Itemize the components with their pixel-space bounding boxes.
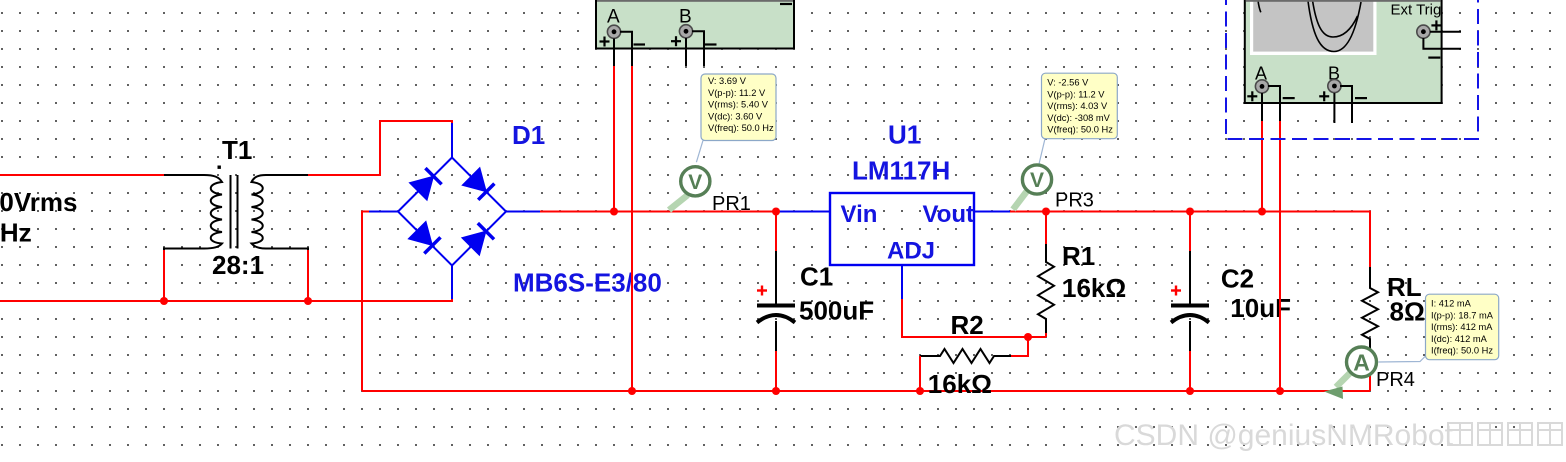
- resistor R2: [920, 349, 1011, 363]
- svg-text:10uF: 10uF: [1230, 293, 1291, 323]
- wire T1 secondary top to bridge: [308, 121, 452, 175]
- svg-text:PR3: PR3: [1055, 190, 1094, 212]
- svg-text:V: -2.56 V: V: -2.56 V: [1047, 78, 1089, 88]
- bridge rectifier D1: [398, 158, 506, 266]
- node junction A- rail: [628, 387, 636, 395]
- wire XSC1 A+: [613, 39, 615, 67]
- svg-text:Vin: Vin: [841, 201, 878, 228]
- capacitor C1: [775, 212, 777, 253]
- node junction R2 rail: [916, 387, 924, 395]
- wire blue from Vout: [974, 211, 1011, 213]
- svg-text:CSDN @geniusNMRobot: CSDN @geniusNMRobot: [1114, 419, 1454, 452]
- svg-text:V(freq): 50.0 Hz: V(freq): 50.0 Hz: [1047, 125, 1113, 135]
- oscilloscope XSC1 (top middle, partial): [596, 0, 794, 49]
- wire blue into bridge top: [451, 123, 453, 158]
- svg-text:R2: R2: [951, 310, 984, 340]
- svg-text:V: 3.69 V: V: 3.69 V: [708, 76, 747, 86]
- node junction XSC2 A+ main: [1258, 208, 1266, 216]
- diode D1a top-left: [409, 168, 441, 200]
- wire XSC2 B-: [1340, 86, 1352, 123]
- svg-text:I(rms): 412 mA: I(rms): 412 mA: [1431, 322, 1493, 332]
- svg-text:50Hz: 50Hz: [0, 218, 32, 248]
- wire main output line: [540, 211, 780, 213]
- probe PR3: [1039, 139, 1045, 164]
- wire Ext Trig -: [1423, 38, 1461, 49]
- svg-text:PR4: PR4: [1376, 369, 1415, 391]
- probe PR4 value box: [1426, 294, 1499, 360]
- svg-text:16kΩ: 16kΩ: [928, 369, 992, 399]
- node junction R1 main: [1042, 208, 1050, 216]
- node junction C1 top: [772, 208, 780, 216]
- svg-text:I(freq): 50.0 Hz: I(freq): 50.0 Hz: [1431, 346, 1493, 356]
- svg-text:V: V: [688, 171, 702, 194]
- svg-text:16kΩ: 16kΩ: [1062, 273, 1126, 303]
- wire T1 primary bottom to rail: [163, 250, 165, 301]
- capacitor C2: [1189, 212, 1191, 253]
- svg-text:LM117H: LM117H: [852, 156, 950, 186]
- watermark: [1114, 419, 1562, 452]
- svg-text:C2: C2: [1221, 263, 1254, 293]
- svg-text:I(dc): 412 mA: I(dc): 412 mA: [1431, 334, 1488, 344]
- svg-text:V(rms): 5.40 V: V(rms): 5.40 V: [708, 100, 769, 110]
- node junction C1 bottom: [772, 387, 780, 395]
- node junction T1 secondary bottom: [304, 297, 312, 305]
- diode D1d bottom-right: [462, 223, 494, 255]
- wire bridge left vertex down to ground rail: [368, 211, 398, 213]
- svg-text:28:1: 28:1: [212, 250, 264, 280]
- svg-text:A: A: [607, 7, 620, 28]
- diode D1c bottom-left: [408, 221, 440, 253]
- node junction T1 primary bottom: [160, 297, 168, 305]
- probe PR1: [696, 140, 703, 162]
- wire XSC2 A-: [1268, 86, 1280, 121]
- resistor R1: [1045, 212, 1047, 246]
- svg-text:V: V: [1030, 169, 1044, 192]
- wire blue to Vin: [778, 211, 830, 213]
- svg-text:V(freq): 50.0 Hz: V(freq): 50.0 Hz: [708, 123, 774, 133]
- node junction XSC2 A- rail: [1276, 387, 1284, 395]
- wire main output line right: [1010, 212, 1370, 268]
- svg-text:MB6S-E3/80: MB6S-E3/80: [513, 268, 662, 298]
- diode D1b top-right: [462, 168, 494, 200]
- probe PR3 value box: [1042, 73, 1118, 139]
- wire source to T1 primary top: [0, 174, 164, 176]
- svg-text:V(dc): 3.60 V: V(dc): 3.60 V: [708, 111, 763, 121]
- svg-text:U1: U1: [888, 120, 921, 150]
- svg-text:R1: R1: [1062, 241, 1095, 271]
- wire Ext Trig +: [1430, 31, 1461, 33]
- svg-text:500uF: 500uF: [799, 296, 874, 326]
- wire U1 ADJ pin: [901, 265, 903, 300]
- wire XSC2 A+: [1261, 93, 1263, 121]
- svg-text:I: 412 mA: I: 412 mA: [1431, 299, 1472, 309]
- wire XSC1 B-: [692, 31, 704, 66]
- svg-text:C1: C1: [800, 261, 833, 291]
- node junction C2 top: [1186, 208, 1194, 216]
- oscilloscope XSC2 (top right): [1245, 0, 1442, 103]
- svg-text:8Ω: 8Ω: [1390, 297, 1425, 327]
- wire XSC2 B+: [1333, 93, 1335, 123]
- svg-text:V(p-p): 11.2 V: V(p-p): 11.2 V: [708, 88, 766, 98]
- node junction A+ main: [610, 208, 618, 216]
- svg-text:D1: D1: [512, 120, 545, 150]
- svg-text:A: A: [1353, 350, 1370, 376]
- op-amp U1 LM117H box: [830, 193, 974, 265]
- wire bridge right vertex stub: [506, 211, 541, 213]
- svg-text:V(rms): 4.03 V: V(rms): 4.03 V: [1047, 101, 1108, 111]
- wire T1 secondary bottom to rail: [307, 250, 309, 301]
- svg-text:Ext Trig: Ext Trig: [1391, 2, 1442, 19]
- svg-text:T1: T1: [222, 135, 252, 165]
- node junction C2 bottom: [1186, 387, 1194, 395]
- wire XSC1 B+: [685, 38, 687, 66]
- wire R2 right riser: [1010, 337, 1028, 356]
- svg-text:V(p-p): 11.2 V: V(p-p): 11.2 V: [1047, 89, 1105, 99]
- wire XSC1 A-: [620, 32, 632, 66]
- svg-text:V(dc): -308 mV: V(dc): -308 mV: [1047, 113, 1110, 123]
- resistor RL: [1362, 267, 1378, 352]
- svg-text:220Vrms: 220Vrms: [0, 187, 77, 217]
- svg-text:Vout: Vout: [923, 201, 975, 228]
- wire ground rail: [362, 390, 1370, 392]
- probe PR1 value box: [701, 74, 776, 141]
- wire AC rail: [0, 298, 452, 301]
- svg-text:ADJ: ADJ: [887, 237, 935, 264]
- svg-text:I(p-p): 18.7 mA: I(p-p): 18.7 mA: [1431, 310, 1494, 320]
- selection box dashed: [1226, 0, 1478, 139]
- wire blue bridge bottom: [451, 266, 453, 300]
- transformer T1: [164, 175, 308, 251]
- svg-text:PR1: PR1: [712, 193, 751, 215]
- node junction ADJ/R2/R1: [1024, 333, 1032, 341]
- probe PR4 (current): [1379, 356, 1426, 362]
